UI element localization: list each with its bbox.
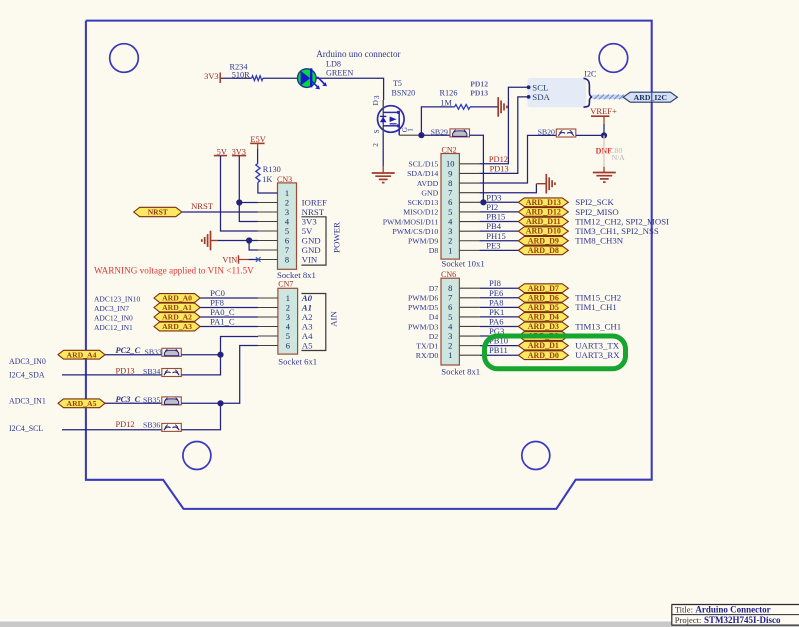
solder bridge SB33 — [145, 347, 182, 356]
svg-text:PD12: PD12 — [116, 420, 135, 429]
svg-text:ARD_A3: ARD_A3 — [162, 322, 192, 331]
signal label ADC3_IN0 — [9, 357, 46, 366]
solder bridge SB35 — [143, 396, 181, 405]
svg-text:1: 1 — [448, 351, 452, 360]
net label PC2_C — [116, 346, 141, 355]
LED LD8 labels — [326, 59, 353, 77]
svg-text:PD13: PD13 — [116, 366, 135, 375]
connector CN6 designator — [441, 270, 456, 279]
wire CN6 pin6 — [480, 306, 519, 308]
CN7 pin stubs — [258, 298, 278, 346]
net label PB4 — [486, 221, 502, 231]
net label PD12 (harness) — [470, 79, 488, 88]
svg-text:7: 7 — [448, 189, 452, 198]
svg-text:1: 1 — [448, 246, 452, 255]
svg-text:PA6: PA6 — [489, 316, 504, 326]
wire CN2 pin6 to flag — [479, 201, 518, 203]
svg-text:1: 1 — [285, 189, 289, 198]
junction A4 node — [217, 352, 223, 358]
wire SB20 left to CN2 pin8 — [479, 135, 556, 183]
port ARD_A0 — [154, 294, 200, 303]
svg-text:AIN: AIN — [329, 311, 339, 327]
mounting hole bottom-left — [183, 442, 211, 470]
svg-text:6: 6 — [285, 236, 289, 245]
function label TIM3_CH1, SPI2_NSS — [575, 226, 659, 236]
svg-text:PF8: PF8 — [210, 298, 224, 308]
label Socket 10x1 (CN2) — [442, 259, 485, 269]
junction CN3 gnd — [246, 237, 252, 243]
svg-text:5: 5 — [448, 208, 452, 217]
title block — [672, 604, 799, 625]
svg-text:ARD_D11: ARD_D11 — [526, 217, 561, 226]
svg-text:PI8: PI8 — [489, 278, 501, 288]
resistor R130 — [256, 163, 281, 184]
svg-text:POWER: POWER — [332, 222, 342, 253]
transistor T5 — [372, 95, 415, 147]
function label TIM8_CH3N — [575, 236, 624, 246]
svg-text:A3: A3 — [302, 321, 313, 331]
svg-text:5V: 5V — [302, 226, 313, 236]
svg-text:2: 2 — [372, 143, 380, 147]
port ARD_D4 — [518, 313, 568, 322]
svg-text:PD12: PD12 — [489, 155, 508, 164]
mounting hole top-left — [110, 44, 139, 73]
wire gate node to SB29 — [421, 134, 450, 136]
net label PA6 — [489, 316, 504, 326]
svg-text:MISO/D12: MISO/D12 — [403, 208, 438, 217]
svg-text:PWM/D5: PWM/D5 — [408, 303, 438, 312]
wire CN2 pin2 to flag — [479, 240, 518, 242]
svg-text:ARD_D4: ARD_D4 — [528, 313, 559, 322]
svg-text:8: 8 — [448, 179, 452, 188]
svg-text:ARD_D7: ARD_D7 — [528, 284, 559, 293]
wire CN3 pin7 to gnd node — [249, 241, 258, 251]
svg-text:3: 3 — [285, 208, 289, 217]
wire CN6 pin3 — [480, 335, 519, 337]
net label PA8 — [489, 297, 504, 307]
svg-text:3: 3 — [448, 332, 452, 341]
wire R234 to LD8 — [263, 77, 298, 79]
wire CN2 pin7 to ground — [479, 184, 546, 193]
connector CN6 body — [441, 278, 459, 365]
function label SPI2_SCK — [575, 197, 614, 207]
svg-text:ADC123_IN10: ADC123_IN10 — [94, 294, 140, 303]
svg-text:A4: A4 — [302, 331, 313, 341]
svg-text:PB11: PB11 — [489, 345, 508, 355]
svg-text:1K: 1K — [262, 175, 272, 184]
svg-text:SB29: SB29 — [431, 127, 448, 136]
svg-text:PA0_C: PA0_C — [210, 307, 235, 317]
svg-text:PD13: PD13 — [470, 88, 488, 97]
port ARD_A5 — [58, 399, 105, 408]
svg-text:PA1_C: PA1_C — [210, 317, 235, 327]
svg-text:6: 6 — [448, 198, 452, 207]
svg-text:D2: D2 — [429, 332, 439, 341]
svg-text:Arduino uno connector: Arduino uno connector — [316, 49, 400, 59]
wire SB35 to A5 node — [181, 402, 220, 404]
port ARD_D2 — [518, 332, 568, 341]
port NRST — [134, 207, 182, 216]
port ARD_D13 — [518, 198, 568, 207]
label Socket 8x1 (CN3) — [277, 270, 316, 280]
svg-text:TIM12_CH2, SPI2_MOSI: TIM12_CH2, SPI2_MOSI — [575, 216, 669, 226]
svg-text:ARD_D8: ARD_D8 — [528, 246, 559, 255]
svg-text:IOREF: IOREF — [302, 197, 328, 207]
svg-text:I2C: I2C — [584, 70, 596, 79]
wire SB34 to A4 node — [181, 355, 220, 375]
wire NRST to CN3 pin3 — [182, 211, 258, 213]
wire LD8 to T5 drain — [316, 78, 384, 100]
svg-text:WARNING voltage applied to VIN: WARNING voltage applied to VIN <11.5V — [94, 265, 254, 275]
svg-text:ADC3_IN0: ADC3_IN0 — [9, 357, 46, 366]
svg-text:NRST: NRST — [302, 207, 325, 217]
power port 5V — [214, 147, 227, 156]
svg-text:PWM/D3: PWM/D3 — [408, 322, 438, 331]
svg-text:R130: R130 — [263, 165, 281, 174]
POWER bracket — [301, 217, 326, 265]
CN3 right pin labels — [302, 197, 328, 264]
svg-text:TIM15_CH2: TIM15_CH2 — [575, 293, 621, 303]
label Socket 8x1 (CN6) — [441, 366, 480, 376]
svg-text:TIM8_CH3N: TIM8_CH3N — [575, 236, 624, 246]
label Socket 6x1 (CN7) — [278, 356, 317, 366]
wire T5 gate to junction — [399, 134, 421, 136]
ground right of R126 — [498, 97, 507, 117]
wire I2C4_SDA to SB34 — [62, 374, 162, 376]
svg-text:D8: D8 — [429, 246, 439, 255]
net label PE6 — [489, 288, 504, 298]
net label PA1_C — [210, 317, 235, 327]
wire gate node up to R126 — [421, 107, 454, 135]
svg-text:GREEN: GREEN — [326, 69, 353, 78]
ground CN3 — [202, 231, 218, 251]
junction VREF node — [601, 132, 607, 138]
svg-text:PI2: PI2 — [486, 202, 498, 212]
wire A4 node to CN7 pin5 — [221, 337, 259, 355]
power port 3V3 (CN3) — [232, 147, 247, 156]
svg-text:9: 9 — [448, 169, 452, 178]
svg-text:ARD_D12: ARD_D12 — [526, 208, 561, 217]
svg-text:TIM13_CH1: TIM13_CH1 — [575, 321, 621, 331]
solder bridge SB29 — [431, 127, 470, 137]
junction CN2 pin6 — [480, 199, 486, 205]
signal label ADC123_IN10 — [94, 294, 140, 303]
wire T5 source to ground — [382, 132, 384, 173]
svg-text:PD13: PD13 — [490, 164, 509, 173]
net label PI2 — [486, 202, 498, 212]
wire CN6 pin7 — [480, 297, 519, 299]
svg-text:Socket 8x1: Socket 8x1 — [441, 366, 480, 376]
wire ARD_A5 to SB35 — [105, 402, 162, 404]
wire E5V to R130 — [257, 143, 259, 163]
net label PE3 — [486, 240, 500, 250]
svg-text:2: 2 — [286, 303, 290, 312]
svg-text:SB36: SB36 — [143, 421, 160, 430]
svg-text:PD12: PD12 — [470, 79, 488, 88]
port ARD_D0 — [518, 351, 568, 360]
wire VIN to CN3 pin8 — [239, 259, 258, 261]
net label PG3 — [489, 326, 504, 336]
capacitor C80 DNF — [596, 135, 626, 166]
signal label ADC3_IN1 — [9, 397, 46, 406]
I2C label — [584, 70, 596, 79]
wire CN6 pin5 — [480, 316, 519, 318]
svg-text:SCK/D13: SCK/D13 — [408, 198, 439, 207]
svg-text:VIN: VIN — [302, 254, 318, 264]
svg-text:ARD_A5: ARD_A5 — [67, 399, 97, 408]
signal label ADC3_IN7 — [94, 304, 129, 313]
transistor T5 labels — [392, 79, 416, 98]
wire CN2 pin5 to flag — [479, 211, 518, 213]
AIN label — [329, 311, 339, 327]
svg-text:ARD_D13: ARD_D13 — [526, 198, 561, 207]
svg-text:3: 3 — [286, 313, 290, 322]
net label PD12 (SB36) — [116, 420, 135, 429]
svg-text:TIM3_CH1, SPI2_NSS: TIM3_CH1, SPI2_NSS — [575, 226, 659, 236]
port ARD_D3 — [518, 322, 568, 331]
svg-text:ARD_D9: ARD_D9 — [528, 236, 559, 245]
svg-text:PC2_C: PC2_C — [116, 346, 141, 355]
wire R126 to ground — [470, 106, 498, 108]
wire SB29 to CN2 pin6 — [470, 135, 484, 202]
svg-text:7: 7 — [285, 246, 289, 255]
ground below C80 — [593, 173, 616, 183]
port ARD_D9 — [518, 236, 568, 245]
wire CN6 pin8 — [480, 287, 519, 289]
svg-text:PE3: PE3 — [486, 240, 500, 250]
wire 3V3 to R234 — [221, 77, 252, 79]
svg-text:A5: A5 — [302, 340, 313, 350]
port ARD_A1 — [154, 303, 200, 312]
ground T5 source — [372, 173, 395, 183]
junction 3V3/IOREF — [236, 199, 242, 205]
LED LD8 — [298, 68, 328, 89]
svg-text:7: 7 — [448, 294, 452, 303]
svg-text:8: 8 — [448, 284, 452, 293]
svg-text:CN7: CN7 — [278, 279, 293, 288]
CN6 pin stubs — [459, 288, 479, 355]
svg-text:ARD_D0: ARD_D0 — [528, 351, 559, 360]
net label PA0_C — [210, 307, 235, 317]
connector CN2 designator — [442, 145, 457, 154]
svg-text:ADC3_IN1: ADC3_IN1 — [9, 397, 46, 406]
svg-text:GND: GND — [302, 235, 321, 245]
svg-text:NRST: NRST — [148, 208, 168, 217]
net label PB11 — [489, 345, 508, 355]
svg-text:PC3_C: PC3_C — [116, 395, 141, 404]
svg-text:STM32H745I-Disco: STM32H745I-Disco — [704, 615, 781, 625]
svg-text:BSN20: BSN20 — [392, 89, 416, 98]
svg-text:6: 6 — [286, 341, 290, 350]
CN6 left pin labels — [408, 284, 438, 360]
wire CN7 pin4 — [200, 326, 258, 328]
wire I2C4_SCL to SB36 — [62, 429, 162, 431]
svg-text:3: 3 — [448, 227, 452, 236]
svg-text:2: 2 — [448, 342, 452, 351]
junction A5 node — [217, 400, 223, 406]
connector CN3 body — [278, 183, 297, 269]
junction T5 gate node — [418, 132, 424, 138]
CN2 left pin labels — [383, 160, 439, 256]
svg-text:NRST: NRST — [191, 201, 214, 211]
port ARD_D11 — [518, 217, 568, 226]
green annotation ellipse — [485, 336, 626, 369]
net label PI8 — [489, 278, 501, 288]
net label PF8 — [210, 298, 224, 308]
port ARD_A2 — [154, 313, 200, 322]
svg-text:A2: A2 — [302, 312, 313, 322]
svg-text:PB4: PB4 — [486, 221, 502, 231]
svg-text:VIN: VIN — [222, 255, 237, 264]
svg-text:SDA: SDA — [532, 92, 550, 102]
net label PD12 — [489, 155, 508, 164]
svg-text:Socket 6x1: Socket 6x1 — [278, 356, 317, 366]
svg-text:LD8: LD8 — [326, 59, 341, 68]
svg-text:SB20: SB20 — [538, 127, 555, 136]
net label PD3 — [486, 192, 501, 202]
CN3 pin stubs — [258, 193, 278, 260]
bus to ARD_I2C — [592, 95, 624, 100]
CN7 right pin labels — [301, 293, 313, 351]
svg-text:D4: D4 — [429, 313, 439, 322]
wire SB33 to A4 node — [181, 354, 220, 356]
svg-text:ARD_D5: ARD_D5 — [528, 303, 559, 312]
wire A5 node to CN7 pin6 — [221, 346, 259, 404]
svg-text:1: 1 — [407, 128, 415, 132]
svg-text:RX/D0: RX/D0 — [416, 351, 439, 360]
svg-text:SCL: SCL — [532, 82, 548, 92]
svg-text:ARD_D6: ARD_D6 — [528, 293, 559, 302]
svg-text:ARD_D3: ARD_D3 — [528, 322, 559, 331]
svg-text:ARD_A0: ARD_A0 — [162, 294, 192, 303]
svg-text:2: 2 — [448, 237, 452, 246]
wire SDA to CN2 pin9 — [479, 97, 528, 173]
solder bridge SB36 — [143, 421, 181, 432]
wire CN2 pin4 to flag — [479, 221, 518, 223]
svg-text:ARD_I2C: ARD_I2C — [634, 93, 668, 102]
port ARD_D10 — [518, 227, 568, 236]
svg-text:TIM1_CH1: TIM1_CH1 — [575, 302, 617, 312]
svg-text:ARD_D1: ARD_D1 — [528, 341, 559, 350]
wire R130 to CN3 pin1 — [258, 182, 278, 193]
brace — [584, 78, 593, 107]
svg-text:I2C4_SCL: I2C4_SCL — [9, 424, 43, 433]
svg-text:3: 3 — [373, 95, 381, 99]
wire CN6 pin4 — [480, 325, 519, 327]
svg-text:3V3: 3V3 — [302, 216, 318, 226]
wire C80 to ground — [603, 167, 605, 173]
net label PB15 — [486, 212, 505, 222]
wire 3V3 to CN3 pins2-4 — [239, 156, 258, 222]
svg-text:Project:: Project: — [675, 615, 702, 625]
port ARD_I2C — [623, 92, 677, 102]
svg-text:R126: R126 — [440, 88, 458, 97]
power port VIN — [222, 255, 238, 264]
function label TIM13_CH1 — [575, 321, 621, 331]
wire ARD_A4 to SB33 — [105, 354, 162, 356]
net label PC3_C — [116, 395, 141, 404]
power port VREF+ — [590, 106, 617, 116]
svg-text:ARD_A2: ARD_A2 — [162, 313, 192, 322]
svg-text:UART3_TX: UART3_TX — [575, 341, 620, 351]
connector CN7 body — [278, 288, 298, 354]
svg-text:10: 10 — [446, 160, 454, 169]
svg-text:ADC12_IN0: ADC12_IN0 — [94, 313, 133, 322]
svg-text:GND: GND — [421, 188, 438, 197]
wire CN2 pin3 to flag — [479, 230, 518, 232]
svg-text:GND: GND — [302, 245, 321, 255]
function label SPI2_MISO — [575, 207, 619, 217]
svg-text:1M: 1M — [440, 98, 452, 107]
svg-text:Socket 10x1: Socket 10x1 — [442, 259, 485, 269]
AIN bracket — [301, 294, 325, 351]
svg-text:PE6: PE6 — [489, 288, 504, 298]
net label NRST — [191, 201, 214, 211]
wire 5V to CN3 pin5 — [221, 156, 258, 231]
signal label I2C4_SDA — [9, 370, 45, 379]
svg-text:5: 5 — [285, 227, 289, 236]
svg-text:TX/D1: TX/D1 — [416, 341, 438, 350]
wire CN6 pin1 — [480, 354, 519, 356]
svg-text:A0: A0 — [301, 293, 313, 303]
svg-text:VREF+: VREF+ — [590, 106, 617, 116]
wire VREF+ to node — [603, 116, 605, 135]
svg-text:2: 2 — [285, 198, 289, 207]
wire CN6 pin2 — [480, 345, 519, 347]
svg-text:ADC12_IN1: ADC12_IN1 — [94, 323, 133, 332]
svg-text:510R: 510R — [232, 71, 250, 80]
svg-text:ARD_A1: ARD_A1 — [162, 303, 192, 312]
svg-text:PWM/D9: PWM/D9 — [408, 237, 438, 246]
wire CN7 pin2 — [200, 307, 258, 309]
svg-text:SB34: SB34 — [143, 367, 160, 376]
bottom gray strip — [0, 620, 799, 627]
function label UART3_RX — [575, 350, 620, 360]
wire CN2 pin1 to flag — [479, 249, 518, 251]
solder bridge SB34 — [143, 367, 181, 377]
svg-text:3V3: 3V3 — [204, 72, 218, 81]
no-ERC cross VIN — [256, 257, 261, 262]
function label TIM15_CH2 — [575, 293, 621, 303]
svg-text:T5: T5 — [393, 79, 402, 88]
wire CN7 pin1 — [200, 297, 258, 299]
function label UART3_TX — [575, 341, 620, 351]
svg-text:PA8: PA8 — [489, 297, 504, 307]
function label TIM1_CH1 — [575, 302, 617, 312]
svg-text:SB35: SB35 — [143, 396, 160, 405]
svg-text:SPI2_SCK: SPI2_SCK — [575, 197, 614, 207]
resistor R234 — [230, 62, 263, 80]
svg-text:N/A: N/A — [612, 153, 626, 162]
svg-text:SDA/D14: SDA/D14 — [407, 169, 438, 178]
net label PB10 — [489, 336, 508, 346]
svg-text:PWM/MOSI/D11: PWM/MOSI/D11 — [383, 217, 439, 226]
resistor R126 — [440, 88, 471, 109]
net label PH15 — [486, 231, 506, 241]
svg-text:PD3: PD3 — [486, 192, 501, 202]
svg-text:PC0: PC0 — [210, 288, 225, 298]
mounting hole top-right — [599, 44, 628, 73]
svg-text:PWM/CS/D10: PWM/CS/D10 — [392, 227, 438, 236]
svg-text:PK1: PK1 — [489, 307, 504, 317]
wire SB20 to VREF node — [576, 134, 604, 136]
svg-text:SPI2_MISO: SPI2_MISO — [575, 207, 619, 217]
svg-text:PWM/D6: PWM/D6 — [408, 294, 438, 303]
connector CN2 body — [441, 154, 459, 260]
svg-text:PH15: PH15 — [486, 231, 506, 241]
function label TIM12_CH2, SPI2_MOSI — [575, 216, 669, 226]
svg-text:D7: D7 — [429, 284, 439, 293]
